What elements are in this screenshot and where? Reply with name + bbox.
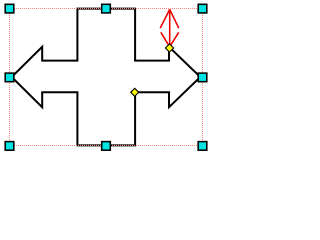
marquee bottom edge: [10, 145, 202, 147]
selection handle bottom-middle: [102, 142, 111, 151]
selection handle top-left: [5, 4, 14, 13]
marquee left edge: [9, 9, 11, 145]
red arrow: lower head right wing: [170, 32, 179, 46]
adjust handle yellow diamond at arrowhead outer corner: [165, 44, 173, 52]
selection handle bottom-right: [198, 142, 207, 151]
marquee top edge: [10, 8, 202, 10]
red arrow: upper head left wing: [160, 9, 170, 28]
adjust drag-direction red arrow: shaft: [169, 9, 171, 45]
selection handle middle-left: [5, 73, 14, 82]
selection marquee: red dotted rectangle: [10, 9, 203, 146]
marquee right edge: [202, 9, 204, 145]
adjust handle yellow diamond at inner corner: [131, 88, 139, 96]
selection handle middle-right: [198, 73, 207, 82]
selection handle bottom-left: [5, 142, 14, 151]
red arrow: upper head right wing: [170, 9, 179, 28]
selection handle top-middle: [102, 4, 111, 13]
canvas background: [0, 0, 218, 159]
shape: left-right arrow callout outline: [12, 9, 201, 146]
selection handle top-right: [198, 4, 207, 13]
red arrow: lower head left wing: [161, 32, 170, 46]
